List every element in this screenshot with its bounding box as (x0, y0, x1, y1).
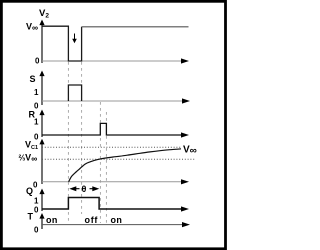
VC1 axis baseline (42, 179, 189, 184)
svg-text:0: 0 (35, 57, 40, 66)
svg-text:1: 1 (34, 88, 39, 97)
svg-text:θ: θ (82, 184, 87, 194)
T axis vertical (39, 213, 44, 229)
V2 waveform (42, 26, 189, 61)
theta annotation (69, 184, 99, 194)
T axis baseline (42, 222, 190, 227)
dotted line 2/3 Voo level (42, 158, 196, 160)
svg-text:1: 1 (34, 197, 39, 206)
svg-text:S: S (30, 74, 36, 84)
R axis vertical (39, 110, 44, 138)
S axis baseline (42, 98, 190, 103)
Q axis vertical (39, 189, 44, 212)
VC1 charging curve (69, 149, 181, 182)
svg-text:T: T (28, 212, 34, 222)
guide dashed vertical t2 (81, 62, 83, 214)
svg-text:⅔V∞: ⅔V∞ (19, 153, 38, 164)
V2 axis baseline (42, 58, 189, 63)
svg-text:Q: Q (26, 186, 33, 196)
guide dashed vertical t1 (67, 62, 69, 223)
svg-text:V2: V2 (39, 8, 49, 20)
Q waveform with baseline (42, 198, 189, 212)
svg-text:on: on (46, 215, 58, 225)
svg-text:0: 0 (33, 181, 38, 190)
trigger down-arrow (72, 34, 77, 44)
svg-text:off: off (85, 215, 99, 225)
R waveform with baseline (42, 123, 189, 137)
dotted line Voo level (42, 146, 181, 148)
V2 axis vertical (39, 20, 44, 64)
VC1 axis vertical (39, 139, 44, 184)
svg-text:0: 0 (34, 226, 39, 235)
svg-text:0: 0 (34, 206, 39, 215)
guide dashed vertical t3 (99, 102, 101, 223)
S pulse waveform (68, 85, 81, 101)
svg-text:1: 1 (34, 118, 39, 127)
svg-text:V∞: V∞ (26, 22, 38, 33)
S axis vertical (39, 71, 44, 106)
svg-text:0: 0 (34, 133, 39, 142)
guide dashed vertical t4 (105, 112, 107, 223)
svg-text:V∞: V∞ (183, 145, 197, 157)
border frame (1, 1, 225, 249)
svg-text:on: on (111, 215, 123, 225)
